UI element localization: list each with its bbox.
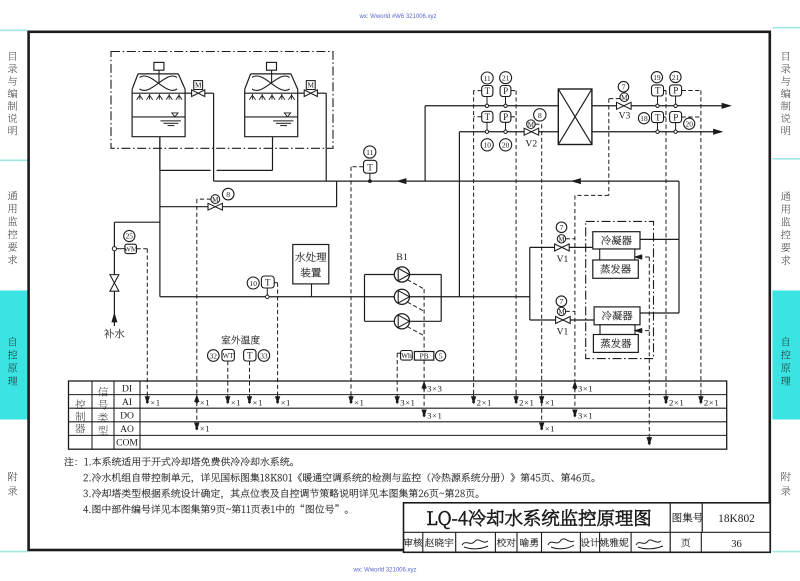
svg-text:T: T (655, 112, 661, 122)
water treatment device stem (311, 284, 313, 297)
table AI input arrow ×1 (541, 395, 543, 401)
valves V1 V3 DO command arrow 3x1 (574, 409, 576, 415)
valve V1 (top) body (555, 244, 562, 251)
svg-text:25: 25 (126, 232, 134, 241)
tower return riser (213, 93, 215, 181)
T pair signal dashed line (474, 90, 482, 92)
tag circle 7 for V1 top (556, 222, 567, 233)
right sidebar tab text 自控原理 (783, 337, 790, 346)
sensor T (tag 18) on chilled return (657, 123, 659, 132)
pump signal dashed collector (423, 289, 425, 352)
svg-text:P: P (503, 86, 508, 96)
P20 P21 signal dashed line (682, 90, 701, 92)
svg-text:M: M (195, 81, 202, 90)
sensor T (tag 19) on chilled supply (657, 96, 659, 106)
V3 signal dashed line (609, 98, 620, 100)
valve V3 actuator M (620, 93, 629, 102)
bypass riser to return line (336, 181, 338, 207)
signature 3 (636, 540, 663, 549)
power meter Wh (401, 351, 413, 361)
title block (404, 503, 771, 553)
svg-text:M: M (212, 196, 219, 204)
PB signal dashed line to table (423, 360, 425, 382)
svg-text:11: 11 (366, 148, 374, 157)
table AI input arrow 2×1 (665, 395, 667, 401)
controller signal table (69, 381, 727, 449)
right sidebar tab text 附录 (781, 472, 790, 481)
tower spray header (132, 92, 185, 94)
bypass pipe (160, 206, 337, 208)
left sidebar tab text 附录 (8, 472, 17, 481)
left sidebar cyan tab 自控原理 background (0, 291, 28, 420)
svg-text:wx: Wworld 321006.xyz: wx: Wworld 321006.xyz (352, 568, 416, 574)
P pair signal dashed line (511, 90, 516, 92)
svg-text:2×1: 2×1 (519, 397, 534, 407)
pump 1 (394, 267, 409, 282)
svg-text:10: 10 (484, 141, 492, 150)
svg-text:T: T (265, 277, 271, 287)
condenser 1 supply pipe (530, 246, 593, 248)
sensor P (tag 21) on supply pipe (505, 97, 507, 106)
valve V2 actuator M (527, 120, 536, 129)
valve V1 (bottom) actuator M (557, 307, 565, 315)
WM signal dashed line (137, 248, 148, 250)
svg-text:COM: COM (116, 438, 138, 449)
svg-text:M: M (528, 121, 535, 129)
svg-text:P: P (673, 86, 678, 96)
tag circle 8 for V2 (534, 109, 546, 121)
WT signal dashed line (227, 361, 229, 395)
svg-text:PB: PB (419, 351, 428, 360)
evaporator 1 box 蒸发器 (593, 260, 639, 278)
condenser return riser (678, 181, 680, 313)
svg-text:×1: ×1 (200, 424, 210, 434)
valve V1 (bottom) body (556, 317, 563, 324)
heat exchanger supply pipe (425, 105, 558, 107)
tower 1 outlet stem (159, 137, 161, 171)
svg-text:V2: V2 (525, 138, 537, 149)
table AI input arrow ×1 (277, 395, 279, 401)
outdoor wet-bulb sensor WT (222, 349, 235, 361)
outdoor T signal dashed line (249, 361, 251, 395)
pump group headers (364, 275, 366, 322)
V2 signal dashed line (535, 123, 542, 125)
table AI input arrow 2×1 (700, 395, 702, 401)
svg-text:V1: V1 (557, 254, 569, 265)
svg-text:7: 7 (622, 82, 626, 91)
svg-text:8: 8 (226, 190, 230, 199)
sensor T (tag 10) on HX return pipe (486, 121, 488, 131)
svg-text:7: 7 (560, 297, 564, 306)
water level mark (284, 113, 290, 117)
bypass valve 8 body (208, 203, 215, 210)
svg-text:P: P (673, 112, 678, 122)
svg-text:3×1: 3×1 (578, 411, 593, 421)
valves V1 V3 DI status up arrow 3x1 (574, 383, 576, 390)
cooling water downcomer (159, 137, 161, 297)
right sidebar tab text 通用监控要求 (781, 192, 791, 201)
pump 3 signal dashed diagonal (407, 327, 424, 336)
svg-text:3×1: 3×1 (578, 384, 593, 394)
tag circle 11 (364, 146, 376, 158)
V1 bottom signal dashed line (566, 310, 575, 312)
svg-text:DO: DO (120, 411, 134, 422)
tag circle 7 for V3 (618, 81, 629, 92)
cooling tower fan casing (251, 73, 291, 75)
tag circle 8 (222, 188, 234, 200)
svg-text:Wh: Wh (401, 351, 412, 360)
cooling tower fan motor (154, 62, 164, 70)
notes text (64, 457, 292, 466)
left sidebar tab text 通用监控要求 (8, 191, 18, 200)
svg-text:×1: ×1 (281, 397, 291, 407)
title block row 审核/校对/设计/页 (404, 538, 423, 547)
svg-text:T: T (655, 86, 661, 96)
table AI input arrow ×1 (227, 395, 229, 401)
tag circle 32 (208, 350, 220, 362)
flow arrow left 1 (398, 179, 407, 184)
make-up inlet with flow arrow (113, 291, 115, 326)
water level mark (172, 113, 178, 117)
svg-text:21: 21 (502, 74, 510, 83)
spray nozzles (139, 94, 141, 100)
valve V2 body (524, 128, 531, 135)
valve 8 signal dashed line (197, 198, 211, 200)
heat exchanger return downpipe (458, 132, 460, 297)
svg-text:B1: B1 (396, 252, 408, 263)
svg-text:M: M (621, 94, 628, 102)
condenser 2 outlet pipe (640, 312, 679, 314)
svg-text:×1: ×1 (545, 397, 555, 407)
dash-dot boundary box around cooling towers (111, 52, 333, 149)
svg-text:WT: WT (223, 352, 235, 360)
pipe from valve to riser (205, 92, 214, 94)
T18 T19 signal dashed line (664, 90, 667, 92)
spray nozzles (251, 94, 253, 100)
svg-text:WM: WM (124, 245, 138, 254)
sensor P (tag 20) on chilled return (675, 123, 677, 132)
condenser 2 box 冷凝器 (594, 307, 640, 325)
pump 3 (394, 314, 409, 329)
pump DO start-stop arrow 3x1 (423, 409, 425, 415)
svg-text:36: 36 (731, 539, 742, 550)
tower water level line (132, 116, 185, 118)
svg-text:3×3: 3×3 (427, 384, 442, 394)
tower inlet pipe to butterfly valve (185, 92, 192, 94)
svg-text:18: 18 (640, 114, 648, 123)
table label 控制器 (75, 399, 85, 409)
dash-dot boundary box around chillers (586, 221, 654, 358)
svg-text:19: 19 (653, 73, 661, 82)
svg-text:AI: AI (122, 397, 132, 408)
cooling tower body (245, 89, 298, 136)
T10 signal dashed line (274, 282, 277, 284)
cooling tower fan blades (252, 76, 290, 90)
motorized butterfly valve M on tower inlet (192, 90, 199, 97)
svg-text:V3: V3 (619, 110, 631, 121)
svg-text:3×1: 3×1 (427, 411, 442, 421)
table AI input arrow 2×1 (515, 395, 517, 401)
left sidebar tab text 自控原理 (10, 337, 17, 346)
tower spray header (245, 92, 298, 94)
water treatment device box 水处理装置 (293, 245, 329, 284)
svg-text:AO: AO (120, 424, 134, 435)
condenser 2 supply pipe (530, 319, 594, 321)
chiller supply header (529, 247, 531, 320)
svg-text:20: 20 (502, 141, 510, 150)
water meter WM tap (112, 247, 116, 251)
heat exchanger supply riser (424, 106, 426, 181)
make-up water branch pipe (114, 221, 159, 223)
svg-text:×1: ×1 (253, 397, 263, 407)
cooling tower fan motor (267, 62, 277, 70)
T11 signal dashed line (351, 166, 364, 168)
sensor T (tag 10) on suction line (266, 288, 268, 297)
tower 2 outlet stem (272, 137, 274, 171)
svg-text:21: 21 (672, 73, 680, 82)
svg-text:×1: ×1 (200, 397, 210, 407)
valve 8 AI feedback up arrow (196, 396, 198, 403)
evaporator 2 box 蒸发器 (593, 335, 638, 353)
table label 信号类型 (98, 387, 108, 397)
tag circle 25 (124, 230, 135, 241)
sensor T (tag 11) on supply pipe (486, 97, 488, 106)
valve V2 AO output arrow (541, 402, 543, 422)
svg-text:M: M (558, 236, 565, 244)
pipe from valve to riser (317, 92, 326, 94)
cooling tower body (132, 89, 185, 136)
svg-text:×1: ×1 (150, 397, 160, 407)
chilled water supply pipe from HX (592, 105, 728, 107)
cooling tower fan blades (140, 76, 178, 90)
flow arrow left 2 (572, 179, 581, 184)
chilled water return pipe (592, 131, 720, 133)
svg-text:T: T (367, 162, 373, 172)
svg-text:11: 11 (484, 74, 491, 83)
cooling tower fan casing (138, 73, 178, 75)
tag circle 33 (258, 350, 270, 362)
V1 top signal dashed line (566, 238, 575, 240)
pump suction line (160, 296, 530, 298)
svg-text:P: P (503, 112, 508, 122)
valve V3 body (617, 102, 624, 109)
svg-text:33: 33 (260, 351, 268, 360)
svg-text:DI: DI (122, 383, 132, 394)
sidebar separator lines teal (0, 29, 28, 31)
svg-text:10: 10 (250, 279, 258, 288)
svg-text:V1: V1 (557, 326, 569, 337)
motorized butterfly valve M on tower inlet (304, 90, 311, 97)
svg-text:2×1: 2×1 (477, 397, 492, 407)
valve V1 (top) actuator M (557, 235, 565, 243)
Wh signal dashed line (397, 352, 400, 354)
svg-text:wx: Wworld #W6 321006.xyz: wx: Wworld #W6 321006.xyz (358, 14, 436, 20)
svg-text:3×1: 3×1 (400, 397, 415, 407)
left sidebar tab text 目录与编制说明 (10, 52, 17, 61)
chiller 1 frame connector (600, 249, 635, 260)
condenser 1 box 冷凝器 (593, 232, 640, 249)
svg-text:T: T (247, 350, 253, 360)
tower return riser (325, 93, 327, 181)
outdoor dry-bulb sensor T (244, 349, 256, 361)
pump DI status up arrow 3x3 (423, 383, 425, 390)
signature 1 (462, 540, 488, 549)
svg-text:18K802: 18K802 (718, 513, 755, 525)
table AI input arrow ×1 (350, 395, 352, 401)
tag circle 7 for V1 bottom (556, 296, 567, 307)
svg-text:M: M (558, 308, 565, 316)
svg-text:20: 20 (686, 120, 694, 129)
table AI input arrow 2×1 (473, 395, 475, 401)
pump 2 (394, 289, 409, 304)
table AI input arrow 3×1 (396, 395, 398, 401)
outdoor temperature label 室外温度 (221, 335, 259, 344)
svg-text:2×1: 2×1 (704, 397, 719, 407)
svg-text:×1: ×1 (545, 424, 555, 434)
tower basin outlet header (160, 169, 211, 171)
pump 1 signal dashed diagonal (407, 280, 424, 289)
signature 2 (548, 539, 574, 549)
condenser 1 outlet pipe (640, 238, 679, 240)
tower inlet pipe to butterfly valve (298, 92, 305, 94)
table AI input arrow ×1 (249, 395, 251, 401)
svg-text:×1: ×1 (231, 397, 241, 407)
bypass valve 8 actuator M (211, 195, 220, 204)
svg-text:5: 5 (439, 352, 443, 361)
temperature sensor T11 on return line (369, 173, 371, 181)
make-up label 补水 (104, 329, 124, 338)
chiller 2 frame connector (600, 325, 635, 335)
pump control box PB (414, 352, 433, 361)
right sidebar tab text 目录与编制说明 (783, 52, 790, 61)
tag circle 5 (435, 351, 445, 361)
svg-text:M: M (308, 81, 315, 90)
water meter WM (125, 244, 137, 253)
table AI input arrow ×1 (146, 395, 148, 401)
svg-text:T: T (485, 86, 491, 96)
svg-text:×1: ×1 (354, 397, 364, 407)
chiller COM dashed line (648, 257, 650, 443)
svg-text:32: 32 (210, 351, 218, 360)
sensor P (tag 20) on HX return pipe (505, 121, 507, 131)
valve 8 AO output arrow (196, 402, 198, 422)
pump 2 signal dashed diagonal (407, 302, 424, 311)
drawing title LQ-4冷却水系统监控原理图 (427, 509, 650, 529)
sensor P (tag 21) on chilled supply (675, 96, 677, 106)
make-up manual valve (110, 275, 119, 283)
svg-text:8: 8 (538, 111, 542, 120)
heat exchanger return pipe with valve V2 (459, 131, 558, 133)
svg-text:7: 7 (560, 223, 564, 232)
svg-text:T: T (485, 112, 491, 122)
title block label 图集号 (673, 513, 703, 523)
svg-text:2×1: 2×1 (669, 397, 684, 407)
condenser return line to towers (214, 180, 679, 182)
right sidebar cyan tab background (772, 291, 800, 420)
plate heat exchanger (558, 89, 592, 145)
tower water level line (245, 116, 298, 118)
